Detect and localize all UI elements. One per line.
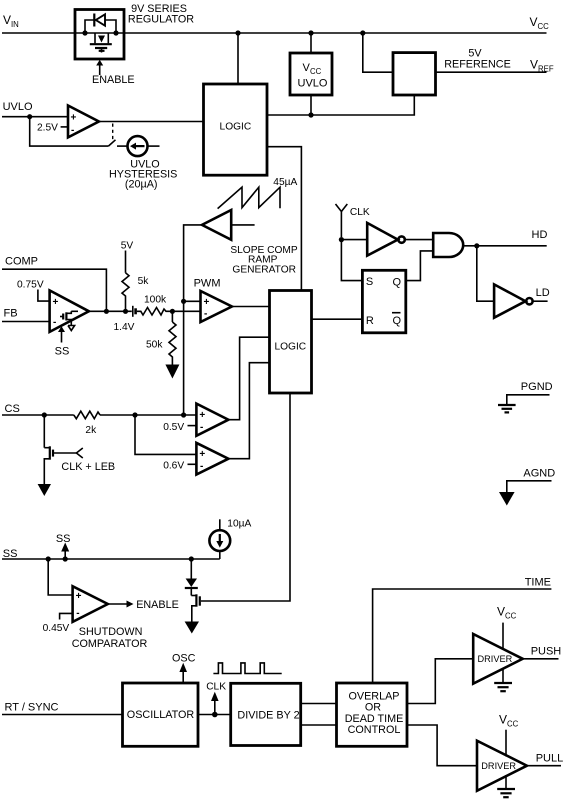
OSC arrow out of oscillator	[172, 653, 196, 684]
resistor R3 50k	[146, 311, 176, 364]
wire RT/SYNC input	[2, 714, 123, 716]
wire LOGIC2 bottom to shutdown gate	[201, 393, 290, 601]
svg-text:CLK: CLK	[206, 682, 226, 693]
junction SS to shutdown comparator	[46, 556, 51, 561]
svg-text:SS: SS	[55, 346, 70, 358]
svg-text:CC: CC	[505, 612, 517, 621]
block LOGIC1 box	[204, 84, 268, 175]
resistor R4 2k	[74, 411, 100, 436]
svg-text:-: -	[76, 608, 79, 619]
svg-text:SS: SS	[56, 533, 71, 545]
junction CS to slope comp line	[181, 412, 186, 417]
svg-text:PGND: PGND	[521, 381, 553, 393]
wire TIME output	[373, 589, 552, 683]
svg-text:DIVIDE BY 2: DIVIDE BY 2	[237, 709, 299, 721]
op-amp shutdown comparator	[73, 586, 108, 622]
wire UVLO input	[2, 116, 68, 118]
junction VCC rail to VCC UVLO	[308, 30, 313, 35]
svg-text:2.5V: 2.5V	[37, 123, 58, 134]
wire 0.5V comparator output to LOGIC2	[228, 337, 269, 420]
junction UVLO	[27, 114, 32, 119]
ground PGND symbol	[498, 405, 516, 412]
svg-text:(20µA): (20µA)	[125, 179, 158, 191]
svg-text:V: V	[530, 15, 538, 29]
svg-text:FB: FB	[4, 308, 18, 320]
svg-text:GENERATOR: GENERATOR	[232, 265, 296, 276]
svg-text:TIME: TIME	[525, 577, 551, 589]
wire FB input	[2, 321, 50, 323]
ENABLE arrow into regulator	[92, 60, 135, 86]
wire ENABLE output arrow	[108, 599, 179, 611]
driver U8 PULL driver triangle	[477, 741, 527, 791]
wire CLK to inverter	[341, 239, 367, 241]
node VREF label	[530, 58, 554, 74]
junction CS to 0.6V comp	[132, 412, 137, 417]
block VCC UVLO box	[290, 53, 332, 95]
SS arrow into error amp	[55, 326, 70, 357]
svg-text:REFERENCE: REFERENCE	[444, 59, 511, 71]
op-amp PWM comparator	[201, 291, 232, 322]
label 0.75V with stub	[17, 280, 50, 302]
wire PGND	[507, 395, 550, 404]
wire HD node down to LD inverter	[477, 246, 494, 301]
label 2.5V with stub	[37, 123, 68, 134]
svg-text:COMP: COMP	[5, 256, 38, 268]
svg-text:UVLO: UVLO	[3, 101, 33, 113]
wire slope comp output down to CS line	[184, 225, 202, 415]
svg-text:-: -	[200, 422, 203, 433]
wire divide out2 to overlap	[301, 724, 337, 726]
svg-text:Q: Q	[393, 315, 402, 327]
junction SS arrow	[63, 556, 68, 561]
svg-text:CLK: CLK	[350, 207, 370, 218]
svg-text:-: -	[204, 309, 207, 320]
svg-text:ENABLE: ENABLE	[136, 599, 179, 611]
svg-text:+: +	[199, 449, 205, 460]
block OVERLAP OR DEAD TIME CONTROL box	[337, 683, 408, 746]
svg-text:1.4V: 1.4V	[114, 322, 135, 333]
wire VCC into pull driver	[505, 730, 507, 757]
svg-text:-: -	[200, 461, 203, 472]
junction error amp output and COMP	[104, 309, 109, 314]
label 9V SERIES REGULATOR	[128, 3, 194, 26]
transistor Q3 soft-stop MOSFET	[191, 589, 200, 622]
svg-text:0.75V: 0.75V	[17, 280, 44, 291]
wire VCC into push driver	[502, 623, 504, 650]
svg-text:DRIVER: DRIVER	[478, 654, 513, 664]
wire LOGIC1 to reference box bottom	[267, 95, 414, 115]
waveform clock pulses	[213, 663, 281, 674]
node VCC label	[530, 15, 550, 31]
svg-text:V: V	[499, 713, 507, 727]
junction CS	[42, 412, 47, 417]
svg-text:CS: CS	[5, 403, 20, 415]
svg-text:AGND: AGND	[523, 468, 555, 480]
svg-text:OSC: OSC	[172, 653, 196, 665]
wire down and right to reference box	[363, 33, 393, 72]
svg-text:OSCILLATOR: OSCILLATOR	[127, 709, 195, 721]
svg-text:+: +	[71, 113, 77, 124]
svg-text:V: V	[530, 58, 538, 72]
svg-text:+: +	[199, 410, 205, 421]
transistor Q1 pass MOSFET inside regulator	[90, 33, 112, 53]
junction SS to soft-stop chain	[189, 556, 194, 561]
label 5V REFERENCE	[444, 48, 511, 71]
svg-text:LD: LD	[536, 287, 550, 299]
regulator pass element U1 9V series regulator box	[75, 10, 124, 60]
svg-text:2k: 2k	[85, 425, 97, 436]
svg-text:DEAD TIME: DEAD TIME	[345, 713, 404, 725]
wire CS input	[2, 414, 74, 416]
op-amp UVLO comparator	[68, 106, 99, 138]
wire VIN to VCC top rail	[2, 32, 547, 34]
junction VCC rail to 5V reference	[360, 30, 365, 35]
block LOGIC2 box	[270, 291, 312, 394]
svg-text:RT / SYNC: RT / SYNC	[5, 702, 59, 714]
svg-text:0.6V: 0.6V	[163, 460, 184, 471]
wire 0.6V comparator output to LOGIC2	[228, 363, 269, 459]
driver U7 PUSH driver triangle	[473, 634, 523, 684]
resistor R2 100k	[137, 295, 173, 316]
svg-text:R: R	[366, 315, 374, 327]
wire error amp output node	[89, 310, 132, 312]
svg-text:DRIVER: DRIVER	[481, 761, 516, 771]
waveform sawtooth 45uA	[218, 177, 298, 209]
diode D1 inside regulator	[85, 14, 116, 34]
svg-text:LOGIC: LOGIC	[274, 341, 306, 352]
ground symbol below push driver	[494, 668, 512, 691]
svg-text:S: S	[366, 276, 373, 288]
ground arrow below Q3	[185, 622, 199, 634]
svg-text:0.5V: 0.5V	[163, 422, 184, 433]
svg-text:PWM: PWM	[194, 278, 221, 290]
wire SS input	[2, 558, 220, 560]
current source 10uA	[209, 519, 251, 560]
wire node to PWM minus input	[172, 310, 200, 312]
block OSCILLATOR box	[123, 683, 199, 746]
wire down to LOGIC1	[237, 33, 239, 84]
svg-text:CC: CC	[538, 22, 550, 31]
wire LOGIC1 right to lower logic	[267, 147, 301, 291]
wire PULL output	[527, 765, 561, 767]
svg-text:OVERLAP: OVERLAP	[348, 691, 399, 703]
wire VCC UVLO bottom	[310, 95, 312, 115]
wire to PWM plus input	[184, 300, 201, 302]
svg-text:LOGIC: LOGIC	[220, 122, 252, 133]
battery 1.4V offset	[114, 306, 136, 333]
wire Q output to AND gate	[406, 251, 433, 281]
wire overlap out2 to pull driver	[407, 725, 477, 766]
resistor R1 5k	[122, 251, 149, 312]
svg-text:-: -	[71, 125, 74, 136]
junction CLK	[339, 237, 344, 242]
svg-text:PUSH: PUSH	[531, 646, 562, 658]
dashed control line for switch	[112, 124, 114, 141]
svg-text:+: +	[204, 297, 210, 308]
svg-text:V: V	[3, 13, 11, 27]
svg-text:0.45V: 0.45V	[43, 623, 70, 634]
op-amp error amplifier	[50, 290, 89, 332]
wire comparator output to LOGIC1	[99, 121, 204, 123]
svg-text:ENABLE: ENABLE	[92, 74, 135, 86]
wire down to 0.6V comparator	[135, 415, 196, 454]
svg-text:OR: OR	[365, 702, 381, 714]
junction HD node	[474, 243, 479, 248]
junction 5k to node	[123, 309, 128, 314]
node VCC label above push driver	[497, 605, 517, 621]
svg-text:5V: 5V	[121, 241, 134, 252]
label SHUTDOWN COMPARATOR	[72, 626, 148, 650]
svg-text:CONTROL: CONTROL	[348, 724, 401, 736]
svg-text:HD: HD	[532, 229, 548, 241]
CLK arrow up	[206, 682, 226, 715]
svg-text:IN: IN	[11, 20, 19, 29]
junction 100k 50k node	[170, 309, 175, 314]
wire divide out1 to overlap	[301, 703, 337, 705]
svg-text:CC: CC	[310, 67, 322, 76]
junction on logic-reference wire	[308, 112, 313, 117]
wire COMP input down to error amp output node	[2, 269, 106, 311]
block DIVIDE BY 2 box	[231, 683, 301, 745]
svg-text:CLK + LEB: CLK + LEB	[61, 461, 115, 473]
wire AGND	[507, 481, 552, 492]
svg-text:SHUTDOWN: SHUTDOWN	[79, 626, 143, 638]
node CLK fork symbol	[336, 204, 370, 237]
svg-text:+: +	[53, 297, 59, 308]
label SLOPE COMP RAMP GENERATOR	[230, 245, 298, 276]
wire inverter to AND gate	[405, 239, 433, 241]
junction on VIN line right	[113, 30, 118, 35]
junction slope comp to PWM plus input	[181, 299, 186, 304]
svg-text:45µA: 45µA	[273, 177, 297, 188]
wire overlap out1 to push driver	[407, 659, 473, 704]
svg-text:V: V	[497, 605, 505, 619]
svg-text:-: -	[53, 317, 56, 328]
svg-text:COMPARATOR: COMPARATOR	[72, 638, 148, 650]
op-amp slope comp ramp generator triangle	[202, 210, 255, 240]
ground arrow below 50k	[165, 365, 179, 379]
svg-text:5k: 5k	[138, 276, 150, 287]
svg-text:Q: Q	[393, 276, 402, 288]
node VIN label	[3, 13, 19, 29]
wire PUSH output	[523, 658, 559, 660]
transistor CS blanking switch CLK+LEB	[44, 415, 115, 484]
svg-text:REGULATOR: REGULATOR	[128, 14, 194, 26]
label UVLO HYSTERESIS (20uA)	[109, 159, 177, 191]
label 0.5V with stub	[163, 422, 196, 433]
wire AND output to HD	[463, 245, 547, 247]
wire SS to shutdown comparator plus	[48, 559, 72, 595]
inverter U3 clock inverter	[367, 223, 405, 256]
wire oscillator to divide by 2	[198, 714, 231, 716]
op-amp 0.6V overload comparator	[196, 443, 228, 475]
ground arrow below CS switch	[38, 484, 51, 496]
junction CLK tap	[212, 712, 218, 718]
ground symbol below pull driver	[497, 775, 515, 797]
wire 2k to comparators	[100, 414, 196, 416]
SS arrow up	[56, 533, 71, 559]
gate U5 AND gate	[433, 233, 463, 257]
svg-text:50k: 50k	[146, 340, 163, 351]
node VCC label above pull driver	[499, 713, 519, 729]
wire VREF output	[436, 71, 547, 73]
wire UVLO hysteresis branch with switch	[30, 117, 128, 146]
wire LD output	[533, 300, 548, 302]
junction on VIN line left	[82, 30, 87, 35]
svg-text:100k: 100k	[144, 295, 167, 306]
wire LOGIC2 to R input	[312, 318, 363, 320]
svg-text:10µA: 10µA	[227, 519, 251, 530]
op-amp 0.5V current limit comparator	[196, 404, 228, 436]
inverter U6 LD driver	[494, 284, 533, 317]
current source UVLO hysteresis 20uA	[128, 136, 160, 156]
junction VIN rail to LOGIC	[235, 30, 240, 35]
block 5V reference box U2	[393, 53, 436, 95]
label 0.6V with stub	[163, 460, 196, 471]
ground AGND arrow	[499, 492, 515, 506]
svg-text:CC: CC	[507, 720, 519, 729]
label 0.45V with stub	[43, 613, 73, 634]
svg-text:PULL: PULL	[536, 753, 564, 765]
diode D2	[185, 559, 198, 588]
transistor clamp inside error amp	[60, 311, 78, 330]
flip-flop U4 SR latch	[362, 270, 405, 333]
svg-text:REF: REF	[538, 65, 554, 74]
svg-text:+: +	[76, 591, 82, 602]
wire down to VCC UVLO box	[310, 33, 312, 53]
wire PWM output to LOGIC2	[232, 306, 270, 308]
svg-text:UVLO: UVLO	[298, 78, 328, 90]
wire CLK down to S input	[341, 240, 362, 281]
